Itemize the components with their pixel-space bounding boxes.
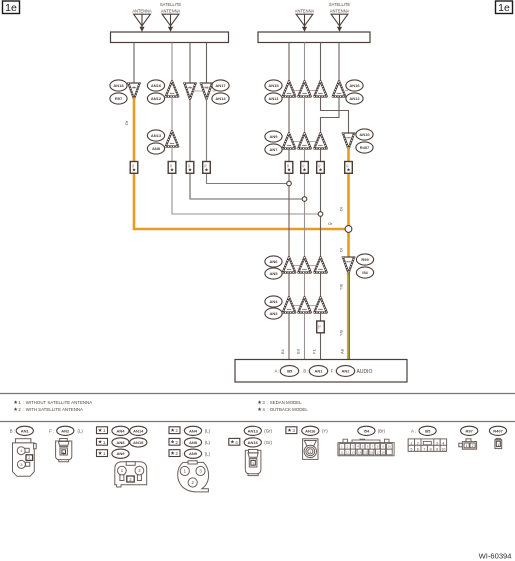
wire L3 down and across to node B bbox=[190, 99, 302, 199]
footnote *2 with satellite antenna bbox=[14, 407, 18, 411]
link dashes between AN6/AN5 connector row bbox=[289, 265, 321, 267]
svg-text:AN6: AN6 bbox=[269, 259, 278, 264]
svg-text:*2: *2 bbox=[205, 85, 208, 89]
svg-text:13: 13 bbox=[351, 450, 355, 454]
antenna symbol right (ANTENNA) bbox=[295, 9, 315, 32]
svg-text:AN1: AN1 bbox=[21, 428, 30, 433]
svg-text:10: 10 bbox=[388, 445, 392, 449]
wire R1 to lower connector row bbox=[288, 97, 290, 134]
svg-text:Or: Or bbox=[124, 120, 129, 125]
connector AN13/AN8 triangle bbox=[165, 131, 179, 146]
wire R2 from AN4 row to AUDIO pin B3 bbox=[304, 313, 306, 360]
footnote *1 without satellite antenna bbox=[14, 400, 18, 404]
connector AN4/AN3 triangle 2 bbox=[298, 297, 312, 312]
connector AN14 triangle *2 bbox=[200, 83, 214, 99]
wire R2 through node B down to AN6 row bbox=[304, 149, 306, 258]
svg-text:12: 12 bbox=[346, 450, 350, 454]
wire R1 from AN4 row to AUDIO pin B1 bbox=[288, 313, 290, 360]
connector AN4/AN3 triangle 1 bbox=[282, 297, 296, 312]
svg-text:R97: R97 bbox=[466, 428, 474, 433]
inline connector box on orange wire R4 bbox=[345, 162, 353, 174]
svg-text:AN16: AN16 bbox=[349, 83, 360, 88]
svg-text:AN4: AN4 bbox=[269, 299, 278, 304]
junction node A bbox=[287, 181, 292, 186]
junction node Or main bbox=[345, 226, 352, 233]
svg-text:(L): (L) bbox=[205, 452, 211, 457]
svg-text:A :: A : bbox=[275, 369, 280, 374]
svg-text:*4: *4 bbox=[133, 85, 136, 89]
svg-text:Y/B: Y/B bbox=[340, 329, 344, 336]
connector AN12 label oval right bbox=[346, 93, 363, 104]
svg-text:(Gr): (Gr) bbox=[264, 429, 272, 434]
svg-text:AN9: AN9 bbox=[116, 451, 125, 456]
junction node B bbox=[302, 197, 307, 202]
inline connector box on wire L1 bbox=[130, 162, 138, 174]
svg-text:AN9: AN9 bbox=[189, 451, 198, 456]
wire orange from R407 to junction and R99 bbox=[347, 147, 350, 257]
connector AN16 label oval right bbox=[346, 80, 363, 91]
svg-text:AN11: AN11 bbox=[268, 96, 279, 101]
svg-text:Or: Or bbox=[328, 221, 333, 226]
svg-text:15: 15 bbox=[364, 450, 368, 454]
legend R407 connector drawing bbox=[495, 438, 502, 448]
satellite antenna symbol left (SATELLITE ANTENNA) bbox=[160, 2, 182, 32]
svg-text:(Br): (Br) bbox=[378, 429, 386, 434]
svg-text:A8: A8 bbox=[340, 348, 345, 354]
legend *1 row AN8 AN15 bbox=[97, 438, 108, 445]
svg-text:AN17: AN17 bbox=[215, 83, 226, 88]
antenna bus bar right bbox=[258, 32, 370, 43]
svg-text:i54: i54 bbox=[364, 428, 370, 433]
connector AN16/AN12 triangle upper left bbox=[165, 81, 179, 96]
inline connector box on wire L3 bbox=[186, 162, 194, 174]
svg-text:ANTENNA: ANTENNA bbox=[132, 9, 152, 14]
connector AN17 label oval bbox=[212, 80, 229, 91]
svg-text:AN14: AN14 bbox=[133, 428, 144, 433]
connector row triangle R3 bbox=[314, 81, 328, 96]
svg-text:A :: A : bbox=[411, 429, 416, 434]
svg-text:*2: *2 bbox=[318, 325, 322, 328]
wire Y/B from i54 to AUDIO pin A8 bbox=[347, 273, 349, 359]
legend connector F AN2 drawing bbox=[56, 439, 72, 462]
svg-text:AN13: AN13 bbox=[151, 133, 162, 138]
svg-text:1: 1 bbox=[466, 444, 468, 448]
svg-text:AN8: AN8 bbox=[116, 440, 125, 445]
svg-text:Or: Or bbox=[339, 206, 344, 211]
svg-text:B1: B1 bbox=[280, 348, 285, 354]
connector AN9/AN7 triangle 1 bbox=[282, 133, 296, 148]
wire L1 orange Or antenna feeder bbox=[134, 98, 349, 230]
connector row triangle R4 bbox=[332, 81, 346, 96]
inline connector box *2 on wire R3 bbox=[317, 321, 325, 333]
legend *1 row AN4 AN14 bbox=[97, 427, 108, 434]
svg-text:6: 6 bbox=[417, 447, 419, 451]
svg-text:3: 3 bbox=[292, 428, 295, 433]
svg-text:ANTENNA: ANTENNA bbox=[161, 9, 181, 14]
legend AN13/AN16 connector drawing bbox=[245, 450, 261, 476]
wire R4 crossover to lower row third triangle bbox=[321, 97, 340, 134]
connector AN6/AN5 triangle 3 bbox=[314, 257, 328, 272]
junction node C bbox=[318, 212, 323, 217]
svg-text:AN16: AN16 bbox=[151, 83, 162, 88]
wire R3 through node C down to AN6 row bbox=[320, 149, 322, 258]
legend R97 connector drawing bbox=[459, 439, 477, 449]
svg-text:ANTENNA: ANTENNA bbox=[330, 9, 350, 14]
svg-text:AN15: AN15 bbox=[268, 83, 279, 88]
connector AN10/R407 triangle bbox=[342, 133, 356, 149]
svg-text:AN12: AN12 bbox=[151, 96, 162, 101]
svg-text::: : bbox=[182, 429, 183, 434]
svg-text:10: 10 bbox=[441, 447, 445, 451]
link dashes between AN4/AN3 connector row bbox=[289, 305, 321, 307]
svg-text:2: 2 bbox=[417, 441, 419, 445]
svg-text:AN8: AN8 bbox=[152, 146, 161, 151]
svg-text:1: 1 bbox=[103, 440, 106, 445]
legend *2 row AN4 L bbox=[169, 427, 180, 434]
connector R99/i54 triangle bbox=[342, 257, 356, 273]
wire L2 bus bar to connector AN16 bbox=[171, 43, 173, 82]
inline connector box on wire L4 bbox=[203, 162, 211, 174]
wire R3 from AN4 row to AUDIO pin F1 bbox=[320, 313, 322, 360]
svg-text:*1: *1 bbox=[189, 85, 192, 89]
svg-text:8: 8 bbox=[430, 447, 432, 451]
wire R3 bus bar to connector row bbox=[320, 43, 322, 82]
legend i85 connector drawing bbox=[408, 439, 446, 451]
svg-text:i85: i85 bbox=[287, 368, 293, 373]
svg-text:(Y): (Y) bbox=[322, 429, 328, 434]
link between connector pair AN17/AN14 bbox=[190, 90, 207, 92]
leader dash to AN17/AN14 ovals bbox=[212, 90, 215, 92]
svg-text:1: 1 bbox=[103, 428, 106, 433]
connector AN17 triangle *1 bbox=[183, 83, 197, 99]
svg-text:2: 2 bbox=[175, 428, 178, 433]
connector AN6 label oval bbox=[265, 256, 282, 267]
svg-text:17: 17 bbox=[377, 450, 381, 454]
legend R97 label bbox=[461, 426, 478, 435]
legend *3 row AN16 Y bbox=[286, 427, 297, 434]
svg-text:14: 14 bbox=[358, 450, 362, 454]
svg-text:R99: R99 bbox=[361, 257, 369, 262]
svg-text:5: 5 bbox=[410, 447, 412, 451]
inline connector box on wire R3 bbox=[317, 162, 325, 174]
svg-text:4: 4 bbox=[442, 441, 444, 445]
svg-text:F :: F : bbox=[49, 429, 54, 434]
svg-text:16: 16 bbox=[370, 450, 374, 454]
wire L4 down and across to node A bbox=[207, 99, 287, 183]
svg-text::: : bbox=[182, 440, 183, 445]
connector AN14 label oval bbox=[212, 93, 229, 104]
svg-text:3 : SEDAN MODEL: 3 : SEDAN MODEL bbox=[262, 400, 302, 405]
legend *1 connector pinout drawing bbox=[115, 462, 147, 487]
legend *3 coax connector drawing bbox=[303, 439, 318, 460]
svg-text::: : bbox=[242, 440, 243, 445]
svg-text:1 : WITHOUT SATELLITE ANTENNA: 1 : WITHOUT SATELLITE ANTENNA bbox=[18, 400, 92, 405]
svg-text:3: 3 bbox=[436, 441, 438, 445]
connector AN16 label oval left bbox=[147, 80, 164, 91]
wire L1 bus bar to connector AN18 bbox=[133, 43, 135, 84]
wire R2 between AN6 and AN4 rows bbox=[304, 273, 306, 298]
svg-text:B3: B3 bbox=[296, 348, 301, 354]
svg-text:9: 9 bbox=[436, 447, 438, 451]
svg-text:AN15: AN15 bbox=[133, 440, 144, 445]
connector AN9/AN7 triangle 2 bbox=[298, 133, 312, 148]
svg-text:2 : WITH SATELLITE ANTENNA: 2 : WITH SATELLITE ANTENNA bbox=[18, 407, 83, 412]
wire R3 crossover to AN10 connector bbox=[321, 97, 349, 134]
svg-text:F1: F1 bbox=[312, 348, 317, 353]
svg-text:(L): (L) bbox=[205, 440, 211, 445]
svg-text:AN7: AN7 bbox=[269, 147, 278, 152]
connector AN18 label oval bbox=[110, 80, 127, 91]
svg-text:AN14: AN14 bbox=[215, 96, 226, 101]
svg-text:AN1: AN1 bbox=[314, 368, 323, 373]
legend AN13 Gr label bbox=[244, 426, 261, 435]
svg-text:AUDIO: AUDIO bbox=[357, 369, 373, 375]
svg-text:AN2: AN2 bbox=[341, 368, 350, 373]
svg-text:R407: R407 bbox=[360, 145, 370, 150]
connector AN11 label oval bbox=[265, 93, 282, 104]
legend *4 row AN16 Gr bbox=[229, 438, 240, 445]
inline connector box on wire L2 bbox=[168, 162, 176, 174]
legend *2 row AN6 L bbox=[169, 450, 180, 457]
svg-text:1: 1 bbox=[497, 443, 499, 447]
svg-text:SATELLITE: SATELLITE bbox=[329, 2, 351, 7]
svg-text::: : bbox=[109, 429, 110, 434]
inline connector box on wire R1 bbox=[285, 162, 293, 174]
connector R99 label oval bbox=[356, 254, 373, 265]
svg-text:AN2: AN2 bbox=[61, 428, 70, 433]
AUDIO unit box bbox=[235, 360, 407, 383]
svg-text:AN4: AN4 bbox=[189, 428, 198, 433]
wire R2 to lower connector row bbox=[304, 97, 306, 134]
svg-text:7: 7 bbox=[423, 447, 425, 451]
svg-text:R407: R407 bbox=[493, 428, 503, 433]
wire L2 down and across to node C bbox=[172, 147, 318, 215]
connector R97 label oval bbox=[110, 93, 127, 104]
wire R4 bus bar to connector AN16 right bbox=[338, 43, 340, 82]
separator line upper bbox=[0, 393, 515, 395]
wire R1 through node A down to AN6 row bbox=[288, 149, 290, 258]
legend i54 Br label bbox=[358, 426, 375, 435]
svg-text:ANTENNA: ANTENNA bbox=[295, 9, 315, 14]
svg-text:1: 1 bbox=[252, 462, 254, 466]
connector AN4/AN3 triangle 3 bbox=[314, 297, 328, 312]
figure reference box 1e top-right bbox=[496, 1, 513, 14]
connector AN9/AN7 triangle 3 bbox=[314, 133, 328, 148]
svg-text:(Gr): (Gr) bbox=[264, 440, 272, 445]
connector AN18/R97 triangle bbox=[127, 83, 141, 99]
svg-text:4 : OUTBACK MODEL: 4 : OUTBACK MODEL bbox=[262, 407, 308, 412]
footnote *3 sedan model bbox=[258, 400, 262, 404]
svg-text:AN16: AN16 bbox=[248, 440, 259, 445]
svg-text::: : bbox=[299, 429, 300, 434]
svg-text:AN18: AN18 bbox=[113, 83, 124, 88]
wire L4 bus bar to connector AN17 right bbox=[206, 43, 208, 84]
antenna symbol left (ANTENNA) bbox=[132, 9, 152, 32]
wire R2 bus bar to connector row bbox=[304, 43, 306, 82]
svg-text:AN8: AN8 bbox=[189, 440, 198, 445]
wire L3 bus bar to connector AN17 left bbox=[189, 43, 191, 84]
legend *2 row AN8 L bbox=[169, 438, 180, 445]
connector row triangle R2 bbox=[298, 81, 312, 96]
svg-text:18: 18 bbox=[382, 450, 386, 454]
connector AN13 label oval bbox=[147, 130, 164, 141]
svg-text:(L): (L) bbox=[205, 429, 211, 434]
svg-text:AN16: AN16 bbox=[305, 428, 316, 433]
svg-text:2: 2 bbox=[175, 451, 178, 456]
connector AN6/AN5 triangle 1 bbox=[282, 257, 296, 272]
wire R3 between AN6 and AN4 rows bbox=[320, 273, 322, 298]
wire R1 between AN6 and AN4 rows bbox=[288, 273, 290, 298]
svg-text:1e: 1e bbox=[498, 2, 510, 14]
wire R1 bus bar to connector AN15 bbox=[288, 43, 290, 82]
legend R407 label bbox=[489, 426, 506, 435]
svg-text:2: 2 bbox=[472, 444, 474, 448]
connector AN5 label oval bbox=[265, 268, 282, 279]
svg-text:B :: B : bbox=[303, 369, 308, 374]
link dashes between AN9/AN7 connector row bbox=[289, 141, 321, 143]
svg-text:Or: Or bbox=[339, 247, 344, 252]
legend *2 connector round drawing bbox=[178, 461, 209, 492]
svg-text:4: 4 bbox=[235, 440, 238, 445]
svg-text:11: 11 bbox=[340, 450, 343, 454]
svg-text:AN10: AN10 bbox=[359, 132, 370, 137]
connector AN4 label oval bbox=[265, 296, 282, 307]
svg-text:AN13: AN13 bbox=[248, 428, 259, 433]
legend i54 multi-pin connector drawing bbox=[338, 439, 394, 456]
svg-text:1: 1 bbox=[63, 451, 65, 455]
svg-text:i54: i54 bbox=[362, 270, 368, 275]
svg-text:AN12: AN12 bbox=[349, 96, 360, 101]
connector AN6/AN5 triangle 2 bbox=[298, 257, 312, 272]
footnote *4 outback model bbox=[258, 407, 262, 411]
svg-text:(L): (L) bbox=[78, 429, 84, 434]
separator line lower bbox=[0, 421, 515, 423]
svg-text:R97: R97 bbox=[115, 96, 123, 101]
svg-text::: : bbox=[109, 452, 110, 457]
connector AN3 label oval bbox=[265, 308, 282, 319]
svg-text:AN3: AN3 bbox=[269, 311, 278, 316]
connector AN15 label oval bbox=[265, 80, 282, 91]
svg-text:Y/B: Y/B bbox=[340, 283, 344, 290]
svg-text:AN4: AN4 bbox=[116, 428, 125, 433]
svg-text:AN9: AN9 bbox=[269, 134, 278, 139]
connector row triangle R1 bbox=[282, 81, 296, 96]
connector R407 label oval bbox=[356, 142, 373, 153]
connector AN9 label oval bbox=[265, 131, 282, 142]
svg-text:1e: 1e bbox=[5, 2, 17, 14]
legend connector B AN1 pinout drawing bbox=[13, 439, 37, 477]
connector AN10 label oval bbox=[356, 129, 373, 140]
svg-text:2: 2 bbox=[175, 440, 178, 445]
svg-text:SATELLITE: SATELLITE bbox=[160, 2, 182, 7]
svg-text:WI-60394: WI-60394 bbox=[479, 552, 512, 561]
connector AN8 label oval bbox=[147, 143, 164, 154]
svg-text:i85: i85 bbox=[425, 428, 431, 433]
figure reference box 1e top-left bbox=[3, 1, 20, 14]
connector i54 label oval bbox=[356, 267, 373, 278]
satellite antenna symbol right (SATELLITE ANTENNA) bbox=[329, 2, 351, 32]
svg-text:1: 1 bbox=[410, 441, 412, 445]
inline connector box on wire R2 bbox=[301, 162, 309, 174]
svg-text:AN5: AN5 bbox=[269, 271, 278, 276]
svg-text:1: 1 bbox=[103, 451, 106, 456]
connector AN7 label oval bbox=[265, 144, 282, 155]
legend *1 row AN6 bbox=[97, 450, 108, 457]
wire L2 between AN16 and AN13 connectors bbox=[171, 97, 173, 132]
svg-text:1: 1 bbox=[309, 450, 311, 454]
antenna bus bar left bbox=[111, 32, 229, 43]
svg-text::: : bbox=[109, 440, 110, 445]
connector AN12 label oval left bbox=[147, 93, 164, 104]
svg-text:F :: F : bbox=[331, 369, 336, 374]
link dashes between right top connector row bbox=[289, 90, 321, 92]
svg-text:B :: B : bbox=[10, 429, 15, 434]
svg-text::: : bbox=[182, 452, 183, 457]
leader dash to AN16/AN12 ovals right bbox=[345, 90, 348, 92]
